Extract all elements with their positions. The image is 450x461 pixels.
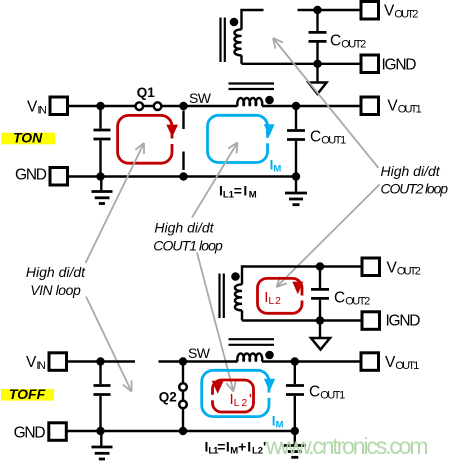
node: COUT1 bottom junction (TOFF)	[291, 427, 299, 435]
capacitor COUT1 (TON)	[287, 106, 305, 177]
terminal VOUT1 (TOFF)	[361, 353, 379, 371]
core bars L1 (TON)	[229, 84, 275, 90]
svg-text:GND: GND	[15, 167, 47, 184]
terminal IGND (top)	[361, 55, 379, 73]
switch Q2 closed (TOFF)	[179, 362, 187, 432]
highlight TOFF	[1, 386, 54, 402]
switch Q2 open (broken line, TON)	[182, 111, 184, 171]
wire: TOFF bottom rail	[67, 430, 295, 432]
pointer arrow to blue IM loop (TON)	[192, 143, 238, 218]
phase dot (top secondary)	[230, 18, 239, 27]
svg-text:SW: SW	[189, 90, 212, 106]
ground (TON left)	[92, 177, 113, 204]
current loop IM (blue, TOFF)	[202, 370, 269, 416]
ground (TOFF right, under COUT1)	[284, 431, 306, 457]
svg-text:IGND: IGND	[386, 313, 421, 330]
core bars (top secondary)	[221, 18, 225, 63]
wire: TON bottom rail	[68, 175, 297, 177]
node: junction bottom rail / COUT2	[313, 60, 321, 68]
phase dot L1 (TON)	[265, 96, 274, 105]
svg-text:High di/dt: High di/dt	[154, 220, 214, 236]
wire: bottom rail of top secondary	[242, 63, 362, 65]
arrow of red VIN loop	[166, 125, 178, 138]
core bars L1 (TOFF)	[229, 339, 275, 345]
pointer arrow to TOFF VIN cap area	[86, 297, 132, 392]
node: VIN junction (TOFF top)	[96, 357, 104, 365]
terminal VIN (TON)	[50, 97, 68, 115]
terminal GND (TOFF)	[49, 423, 67, 441]
node: junction top rail / COUT2	[313, 6, 321, 14]
capacitor CIN (TOFF)	[94, 362, 111, 432]
wire: bottom rail (mid secondary)	[242, 319, 362, 321]
wire: TON top rail	[68, 105, 238, 107]
gap under red IL2' loop arrow (TOFF)	[211, 395, 215, 401]
ground IGND triangle (mid)	[311, 321, 330, 350]
ground (TON right, under COUT1)	[285, 177, 307, 205]
arrow of red IL2 loop	[292, 282, 303, 295]
node: VIN junction (TON top)	[96, 102, 104, 110]
transformer secondary winding T1s (mid)	[235, 267, 361, 321]
phase dot L1 (TOFF)	[265, 351, 274, 360]
wire: TOFF top rail (Q1 open gap)	[67, 360, 362, 362]
highlight TON	[1, 130, 55, 146]
svg-text:Q2: Q2	[159, 390, 177, 405]
terminal VOUT1 (TON)	[361, 97, 379, 115]
svg-text:Q1: Q1	[137, 85, 156, 100]
capacitor COUT2 (mid)	[311, 267, 329, 321]
arrow of blue IM loop	[264, 124, 275, 136]
node: SW column (TOFF bottom)	[179, 427, 187, 435]
node: COUT1 junction (TOFF top)	[291, 357, 299, 365]
terminal IGND (mid)	[362, 312, 380, 330]
terminal GND (TON)	[50, 168, 68, 186]
capacitor COUT2 (top)	[309, 10, 327, 64]
current loop IL2 (red, mid)	[258, 278, 303, 313]
gap under blue IM loop arrow (TOFF)	[267, 393, 271, 399]
label: High di/dt COUT2 loop	[381, 163, 449, 197]
node SW (TOFF)	[179, 357, 187, 365]
core bars (mid secondary)	[220, 274, 224, 319]
svg-text:COUT2 loop: COUT2 loop	[381, 181, 449, 197]
node SW (TON)	[179, 102, 187, 110]
svg-text:TOFF: TOFF	[9, 386, 46, 402]
node: junction bottom rail / COUT2 (mid)	[316, 316, 324, 324]
gap under blue IM loop arrow (TON)	[266, 138, 270, 144]
node: GND junction (TON bottom)	[96, 172, 104, 180]
label: High di/dt COUT1 loop	[153, 220, 223, 254]
svg-text:High di/dt: High di/dt	[26, 264, 86, 280]
node: COUT1 junction (TON top)	[292, 102, 300, 110]
pointer arrow to TOFF loop	[197, 253, 236, 392]
inductor L1 (TOFF)	[237, 353, 262, 361]
pointer arrow to IL2 loop (mid)	[277, 185, 380, 288]
switch Q1 (closed)	[136, 102, 162, 110]
svg-text:COUT1 loop: COUT1 loop	[153, 238, 223, 254]
pointer arrow to top secondary loop	[273, 38, 379, 168]
node: COUT1 bottom junction (TON)	[292, 172, 300, 180]
current loop IM (blue, TON)	[208, 115, 268, 162]
capacitor CIN (TON)	[94, 106, 111, 177]
wire: top rail right segment to VOUT2	[298, 9, 362, 11]
arrow of red IL2' loop (TOFF)	[212, 381, 224, 394]
terminal VIN (TOFF)	[49, 353, 67, 371]
ground (TOFF left)	[92, 431, 113, 459]
pointer arrow to red VIN loop	[86, 143, 145, 263]
node: SW column (TON bottom)	[179, 172, 187, 180]
current loop IL2' (red, TOFF)	[213, 380, 254, 412]
terminal VOUT2 (mid)	[362, 258, 380, 276]
transformer secondary winding T1s (top)	[234, 10, 263, 64]
current loop VIN (red, TON)	[118, 115, 172, 163]
svg-text:VIN loop: VIN loop	[30, 282, 81, 298]
svg-text:www.cntronics.com: www.cntronics.com	[265, 433, 429, 459]
terminal VOUT2 (top)	[361, 2, 379, 20]
node: GND junction (TOFF bottom)	[96, 427, 104, 435]
svg-text:IGND: IGND	[382, 57, 417, 74]
gap under red VIN loop arrow	[170, 139, 174, 145]
inductor L1 (TON)	[237, 98, 262, 106]
arrow of blue IM loop (TOFF)	[264, 379, 275, 392]
svg-text:High di/dt: High di/dt	[381, 163, 441, 179]
node: junction top rail / COUT2 (mid)	[316, 262, 324, 270]
gap under red IL2 loop arrow (mid)	[300, 296, 304, 301]
label: High di/dt VIN loop	[26, 264, 86, 298]
ground IGND triangle (top)	[309, 64, 327, 94]
svg-text:TON: TON	[13, 130, 43, 146]
capacitor COUT1 (TOFF)	[286, 362, 304, 432]
svg-text:SW: SW	[188, 345, 211, 361]
phase dot (mid secondary)	[231, 272, 240, 281]
svg-text:GND: GND	[14, 425, 46, 442]
